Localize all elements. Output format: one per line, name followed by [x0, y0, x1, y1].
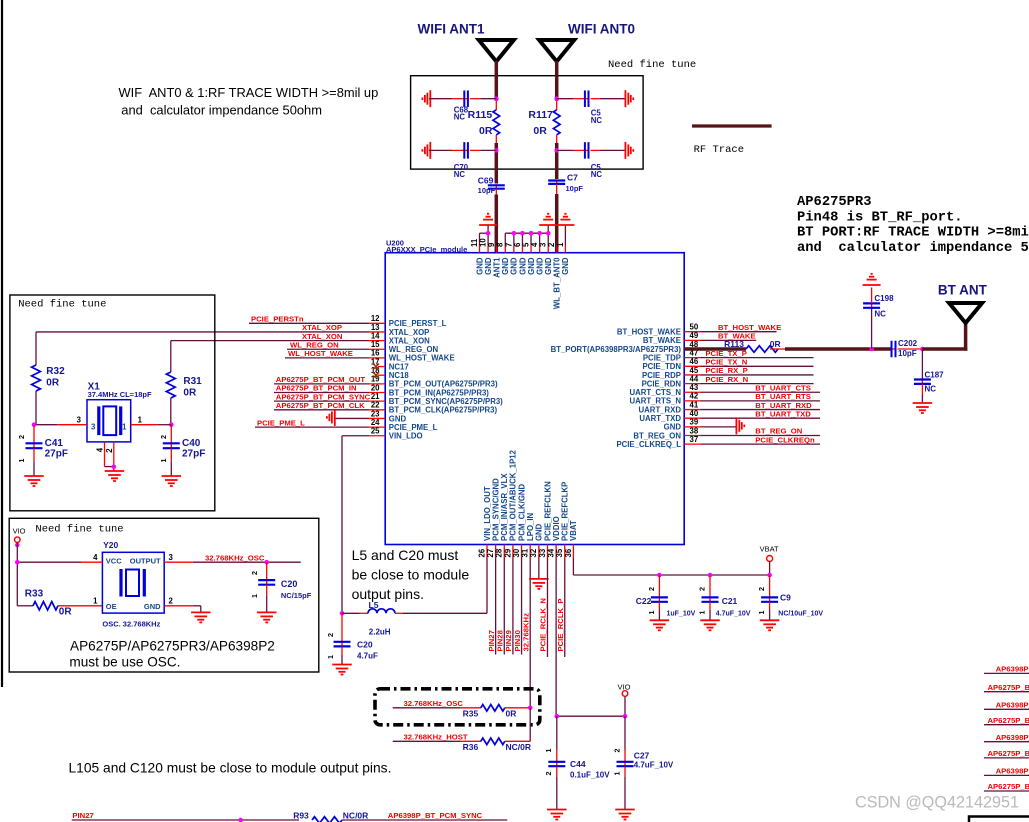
svg-text:XTAL_XON: XTAL_XON — [302, 332, 343, 341]
wire right-edge net stub 1 — [984, 672, 1029, 674]
resistor R93 — [312, 817, 342, 822]
svg-text:BT_PCM_OUT(AP6275P/PR3): BT_PCM_OUT(AP6275P/PR3) — [389, 380, 498, 389]
svg-text:0R: 0R — [533, 125, 547, 137]
capacitor C68 — [463, 90, 469, 107]
capacitor C70 — [463, 142, 469, 159]
svg-text:L5 and C20 must: L5 and C20 must — [352, 547, 459, 563]
svg-text:12: 12 — [371, 314, 380, 323]
junction ANT1/C68 — [494, 96, 499, 101]
svg-text:C202: C202 — [898, 339, 918, 348]
svg-text:AP6275P_BT_PCM: AP6275P_BT_PCM — [988, 782, 1029, 791]
wire C5b to ground — [600, 149, 626, 151]
capacitor C21 — [702, 596, 719, 602]
capacitor C44 lead bottom — [556, 766, 558, 809]
svg-text:29: 29 — [503, 548, 512, 557]
antenna BT ANT — [949, 303, 982, 323]
crystal X1 symbol — [99, 406, 121, 435]
net label AP6398P BT PCM SYNC — [388, 811, 483, 820]
svg-text:32.768KHz_OSC: 32.768KHz_OSC — [404, 699, 464, 708]
label Y20 — [103, 540, 118, 550]
resistor R33 — [33, 602, 58, 610]
label X1 — [88, 382, 101, 393]
svg-text:GND: GND — [664, 423, 682, 432]
legend RF trace text — [694, 144, 744, 156]
ground (below C9) — [760, 620, 780, 630]
capacitor C5 (upper) — [584, 90, 590, 107]
wire right-edge net stub 2 — [984, 691, 1029, 693]
wire PCIE_PERSTn (pin12) — [249, 322, 369, 324]
svg-text:10pF: 10pF — [898, 349, 917, 358]
label R113 value 0R — [770, 339, 781, 349]
pin number 2 (C44) — [544, 772, 553, 776]
svg-text:R117: R117 — [528, 109, 553, 121]
svg-text:NC18: NC18 — [389, 371, 410, 380]
label C202 — [898, 339, 918, 348]
svg-text:LPO_IN: LPO_IN — [526, 512, 535, 541]
svg-text:0R: 0R — [59, 607, 73, 618]
label R31 — [183, 376, 202, 387]
net label AP6275P_BT_PCM (right edge 8) — [988, 782, 1029, 791]
capacitor C20 lead bottom — [341, 646, 343, 664]
label C187 value NC — [925, 385, 937, 394]
svg-text:22: 22 — [371, 401, 380, 410]
pin lead C5a right — [591, 98, 600, 100]
wire C5a to ground — [600, 98, 626, 100]
power VBAT symbol — [767, 556, 773, 562]
label R115 — [468, 109, 493, 121]
wire VBAT drop — [769, 562, 771, 576]
net label AP6275P BT PCM IN — [276, 384, 357, 393]
capacitor C27 — [617, 761, 634, 767]
svg-text:WL_REG_ON: WL_REG_ON — [389, 345, 439, 354]
svg-text:42: 42 — [690, 392, 699, 401]
svg-text:AP6275P_BT_PCM_IN: AP6275P_BT_PCM_IN — [276, 384, 357, 393]
capacitor C5 (lower) — [584, 142, 590, 159]
svg-text:2.2uH: 2.2uH — [369, 628, 391, 637]
svg-text:2: 2 — [326, 633, 335, 637]
junction pin6 bus — [520, 231, 525, 236]
svg-text:WL_HOST_WAKE: WL_HOST_WAKE — [389, 354, 455, 363]
svg-text:BT ANT: BT ANT — [938, 283, 988, 298]
wire C187 to ground — [921, 395, 923, 403]
svg-text:NC: NC — [874, 310, 886, 319]
RF trace BT (R113 to C202) — [785, 347, 892, 351]
svg-text:C27: C27 — [634, 751, 650, 761]
module left pin leads 12-25 — [369, 323, 385, 435]
svg-text:2: 2 — [105, 448, 114, 453]
wire XTAL_XON drop to R31 — [170, 341, 172, 372]
wire pin27 down — [495, 558, 497, 655]
label R31 value 0R — [183, 388, 197, 399]
svg-text:38: 38 — [690, 426, 699, 435]
wire PIN27 net (R93 row) — [72, 819, 299, 821]
svg-text:0R: 0R — [46, 378, 60, 389]
wire pin6 stub up — [521, 233, 523, 245]
RF trace ANT1 (antenna to R115) — [495, 61, 499, 101]
label R93 — [293, 811, 309, 821]
svg-text:1: 1 — [556, 242, 565, 247]
svg-text:32.768KHz_HOST: 32.768KHz_HOST — [404, 733, 468, 742]
wire BT_PCM_CLK (pin22) — [274, 409, 369, 411]
svg-text:PCIE_TX_N: PCIE_TX_N — [705, 358, 747, 367]
frame left border — [1, 0, 3, 687]
svg-text:PIN29: PIN29 — [504, 630, 513, 651]
svg-text:R93: R93 — [293, 811, 309, 821]
net label AP6275P BT PCM SYNC — [276, 392, 371, 401]
RF trace BT (C202 to antenna) — [922, 321, 967, 351]
svg-text:AP6275P_BT_PCM: AP6275P_BT_PCM — [988, 716, 1029, 725]
net label WL HOST WAKE — [288, 349, 353, 358]
wire right-edge net stub 7 — [984, 774, 1029, 776]
pin number 1 (C41) — [17, 459, 26, 463]
svg-text:0R: 0R — [479, 125, 493, 137]
module bottom pin numbers — [477, 548, 572, 557]
pin lead L5 right — [395, 612, 403, 614]
wire R33 row — [17, 605, 33, 607]
ground (below C44) — [547, 810, 567, 820]
svg-text:C20: C20 — [357, 640, 373, 650]
wire VIN_LDO (pin25) — [342, 436, 369, 614]
junction node A (X1 pin3) — [32, 422, 37, 427]
pin lead C68 left — [452, 98, 464, 100]
module bottom pin names — [483, 449, 578, 541]
label R33 value 0R — [59, 607, 73, 618]
junction pin7 bus — [512, 231, 517, 236]
wire VIO rail — [557, 715, 625, 717]
svg-text:13: 13 — [371, 323, 380, 332]
label R93 value NC/0R — [343, 811, 369, 821]
pin number 4 (Y20) — [93, 553, 98, 562]
pin number 2 (C40) — [159, 435, 168, 439]
ground (below C187) — [913, 403, 933, 413]
net label PCIE RCLK N (rotated) — [539, 598, 548, 652]
svg-text:PCIE_RCLK_P: PCIE_RCLK_P — [556, 599, 565, 652]
wire pin36 to VBAT rail — [573, 558, 769, 576]
wire pin3 to ground — [547, 225, 549, 246]
svg-text:ANT1: ANT1 — [492, 257, 501, 278]
ground (Y20 GND) — [191, 612, 211, 622]
svg-text:36: 36 — [564, 548, 573, 557]
svg-text:Y20: Y20 — [103, 540, 118, 550]
svg-text:3: 3 — [539, 242, 548, 247]
svg-text:PCIE_REFCLKN: PCIE_REFCLKN — [543, 481, 552, 541]
wire right-edge net stub 8 — [984, 790, 1029, 792]
pin lead Y20 pin2 — [164, 605, 193, 607]
wire pin5 stub up — [530, 233, 532, 245]
wire X1 pins 4/2 join — [105, 467, 114, 471]
label C20 — [357, 640, 373, 650]
svg-text:GND: GND — [527, 257, 536, 275]
module top pin leads 1-11 — [480, 246, 566, 253]
svg-text:PCM_IN/ASR_VLX: PCM_IN/ASR_VLX — [500, 473, 509, 541]
label C69 value 10pF — [478, 186, 496, 195]
svg-text:2: 2 — [17, 435, 26, 439]
svg-text:R33: R33 — [25, 589, 44, 600]
ground (above pin10) — [479, 214, 497, 225]
svg-text:AP6398P_BT_PCM: AP6398P_BT_PCM — [996, 701, 1029, 710]
capacitor C187 — [914, 379, 931, 385]
need-fine-tune box 1 — [10, 295, 215, 511]
svg-text:GND: GND — [535, 257, 544, 275]
wire PCIE_RX_P (pin45) — [701, 374, 814, 376]
pin number 1 (C22) — [647, 611, 656, 615]
net label BT_UART_RTS — [755, 392, 811, 401]
svg-text:VIN_LDO: VIN_LDO — [389, 432, 423, 441]
svg-text:3: 3 — [91, 422, 96, 431]
svg-text:2: 2 — [547, 242, 556, 247]
module U200 outline — [385, 253, 684, 545]
crystal X1 pin1 lead — [131, 424, 172, 426]
pin name GND (Y20) — [144, 602, 161, 611]
power VIO symbol — [622, 691, 628, 697]
capacitor C22 lead bottom — [658, 602, 660, 621]
label C69 — [478, 176, 494, 186]
crystal X1 pin4 lead — [104, 442, 106, 467]
pin lead C70 right — [470, 149, 496, 151]
net label PCIE_TX_P — [705, 349, 746, 358]
wire BT_UART_CTS (pin43) — [701, 391, 821, 393]
svg-text:C7: C7 — [567, 173, 578, 183]
svg-text:AP6398P_BT_PCM: AP6398P_BT_PCM — [996, 733, 1029, 742]
label C68 — [454, 105, 469, 121]
svg-text:WIFI ANT0: WIFI ANT0 — [568, 22, 635, 37]
svg-text:C20: C20 — [281, 579, 298, 589]
svg-text:AP6275P_BT_PCM_CLK: AP6275P_BT_PCM_CLK — [276, 401, 365, 410]
label C21 value — [716, 611, 751, 618]
pin lead Y20 pin3 — [164, 561, 193, 563]
svg-text:AP6275P_BT_PCM_SYNC: AP6275P_BT_PCM_SYNC — [276, 392, 371, 401]
svg-text:PCIE_CLKREQ_L: PCIE_CLKREQ_L — [616, 440, 681, 449]
pin number 2 (C20) — [326, 633, 335, 637]
svg-text:35: 35 — [555, 548, 564, 557]
RF trace ANT0 (R117 to C7) — [555, 143, 559, 179]
net label AP6398P_BT_PCM (right edge 7) — [996, 767, 1029, 776]
svg-text:31: 31 — [521, 548, 530, 557]
wire BT_UART_RXD (pin41) — [701, 409, 821, 411]
pin lead R33 to Y20 pin1 — [58, 605, 102, 607]
label WIFI ANT1 — [418, 22, 485, 37]
svg-text:24: 24 — [371, 418, 380, 427]
pin lead L5 left — [360, 612, 369, 614]
svg-text:AP6398P_BT_PCM: AP6398P_BT_PCM — [996, 767, 1029, 776]
oscillator Y20 crystal symbol — [121, 569, 144, 597]
svg-text:BT PORT:RF TRACE WIDTH >=8mil: BT PORT:RF TRACE WIDTH >=8mil — [797, 225, 1029, 241]
ground (below C40) — [162, 476, 182, 486]
wire BT_REG_ON (pin38) — [701, 435, 821, 437]
svg-text:AP6275P/AP6275PR3/AP6398P2: AP6275P/AP6275PR3/AP6398P2 — [70, 639, 275, 654]
pin number 1 (C20 osc) — [250, 594, 259, 598]
resistor R35 — [481, 705, 505, 712]
svg-text:AP6275P_BT_PCM: AP6275P_BT_PCM — [988, 683, 1029, 692]
no-connect X pin18 — [373, 372, 379, 378]
svg-text:PCIE_RX_N: PCIE_RX_N — [705, 375, 748, 384]
svg-text:GND: GND — [144, 602, 161, 611]
label C198 — [874, 294, 894, 303]
svg-text:33: 33 — [538, 548, 547, 557]
svg-text:39: 39 — [690, 418, 699, 427]
svg-text:AP6398P_BT_PCM: AP6398P_BT_PCM — [996, 665, 1029, 674]
pin number 1 (C40) — [159, 459, 168, 463]
junction pin5 bus — [529, 231, 534, 236]
svg-text:2: 2 — [698, 587, 707, 591]
svg-text:NC/10uF_10V: NC/10uF_10V — [778, 611, 823, 618]
resistor R36 — [481, 738, 505, 745]
svg-text:4: 4 — [96, 447, 105, 452]
resistor R115 — [493, 110, 500, 135]
capacitor C7 — [548, 180, 565, 185]
ground (below X1) — [105, 471, 125, 481]
capacitor C202 — [891, 341, 897, 358]
svg-text:10pF: 10pF — [478, 186, 496, 195]
svg-text:PCIE_PME_L: PCIE_PME_L — [257, 418, 305, 427]
label R36 — [463, 742, 479, 752]
pin lead R36 right — [505, 740, 530, 742]
svg-text:NC/0R: NC/0R — [343, 811, 369, 821]
net label PCIE CLKREQn — [755, 435, 815, 444]
power VIO (box2) symbol — [14, 537, 20, 543]
svg-text:NC: NC — [591, 170, 603, 179]
svg-text:1: 1 — [612, 772, 621, 776]
label C40 — [182, 438, 201, 449]
note OSC requirement — [69, 639, 274, 670]
svg-text:WIFI ANT1: WIFI ANT1 — [418, 22, 485, 37]
svg-text:37.4MHz CL=18pF: 37.4MHz CL=18pF — [88, 390, 152, 399]
wire PCIE_PME_L (pin24) — [255, 426, 369, 428]
svg-text:PCIE_PERSTn: PCIE_PERSTn — [251, 315, 304, 324]
svg-text:GND: GND — [475, 257, 484, 275]
svg-text:BT_HOST_WAKE: BT_HOST_WAKE — [617, 328, 681, 337]
svg-text:6: 6 — [513, 242, 522, 247]
svg-text:be close to module: be close to module — [352, 567, 470, 583]
svg-text:R36: R36 — [463, 742, 479, 752]
svg-text:BT_PORT(AP6398PR3/AP6275PR3): BT_PORT(AP6398PR3/AP6275PR3) — [551, 345, 682, 354]
svg-text:GND: GND — [484, 257, 493, 275]
svg-text:21: 21 — [371, 392, 380, 401]
svg-text:C44: C44 — [570, 759, 586, 769]
svg-text:BT_UART_RTS: BT_UART_RTS — [755, 392, 811, 401]
module right pin names — [551, 328, 682, 449]
svg-text:C187: C187 — [925, 370, 945, 379]
RF trace ANT0 (C7 to module pin 2) — [555, 194, 559, 253]
net label WL REG ON — [290, 340, 339, 349]
ground (left of C68) — [422, 90, 430, 107]
svg-text:L5: L5 — [369, 600, 379, 610]
net label PIN29 (rotated) — [504, 630, 513, 651]
svg-text:BT_REG_ON: BT_REG_ON — [755, 427, 802, 436]
capacitor C198 — [863, 302, 880, 308]
svg-text:0.1uF_10V: 0.1uF_10V — [570, 771, 610, 780]
pin number 1 (C21) — [698, 611, 707, 615]
label R32 value 0R — [46, 378, 60, 389]
label C41 value 27pF — [45, 449, 68, 460]
capacitor C20 lead top — [341, 614, 343, 642]
ground (below C20 osc) — [257, 612, 277, 622]
svg-text:44: 44 — [690, 374, 699, 383]
svg-text:PIN28: PIN28 — [495, 629, 504, 651]
svg-text:WIF ANT0 & 1:RF TRACE WIDTH >: WIF ANT0 & 1:RF TRACE WIDTH >=8mil up — [119, 85, 379, 100]
wire PCIE_RX_N (pin44) — [701, 383, 814, 385]
wire gnd bus pins 8-3 — [505, 233, 548, 245]
wire R36 left — [393, 740, 481, 742]
svg-text:34: 34 — [547, 548, 556, 557]
RF trace BT (module to R113) — [684, 347, 746, 351]
svg-text:NC: NC — [454, 170, 466, 179]
junction pin4 bus — [537, 231, 542, 236]
svg-text:PCIE_RDN: PCIE_RDN — [642, 379, 682, 388]
svg-text:output pins.: output pins. — [352, 586, 424, 602]
svg-text:OSC. 32.768KHz: OSC. 32.768KHz — [102, 620, 160, 629]
pin number 1 (C27) — [612, 772, 621, 776]
svg-text:AP6275P_BT_PCM_OUT: AP6275P_BT_PCM_OUT — [276, 375, 366, 384]
svg-text:2: 2 — [250, 571, 259, 575]
capacitor C40 lead bottom — [170, 448, 172, 476]
net label AP6275P_BT_PCM (right edge 6) — [988, 749, 1029, 758]
label U200 — [386, 238, 404, 247]
wire BT_HOST_WAKE (pin50) — [701, 331, 777, 333]
svg-text:3: 3 — [169, 553, 174, 562]
resistor R32 — [32, 365, 41, 391]
label R33 — [25, 589, 44, 600]
svg-text:GND: GND — [501, 257, 510, 275]
junction ANT0/C5b — [554, 148, 559, 153]
pin lead R117 top — [556, 101, 558, 110]
label C5 lower — [591, 163, 603, 179]
label C9 — [780, 593, 791, 603]
capacitor C22 lead top — [658, 575, 660, 597]
wire pin4 stub up — [539, 233, 541, 245]
svg-text:37: 37 — [690, 435, 699, 444]
note need fine tune (top) — [608, 59, 696, 71]
svg-text:3: 3 — [77, 416, 82, 425]
svg-text:NC: NC — [591, 116, 603, 125]
svg-text:and calculator impendance 50: and calculator impendance 50 — [797, 240, 1029, 256]
label L5 value 2.2uH — [369, 628, 391, 637]
pin number 2 (X1) — [105, 448, 114, 453]
svg-text:WL_REG_ON: WL_REG_ON — [290, 340, 339, 349]
inductor L5 — [368, 609, 395, 613]
junction C21 tap — [708, 573, 713, 578]
svg-text:C40: C40 — [182, 438, 201, 449]
junction below VIO — [15, 543, 20, 548]
svg-text:OE: OE — [106, 602, 117, 611]
filter box outline — [411, 76, 643, 169]
ground (right of C5 lower) — [625, 142, 633, 159]
frame title block corner — [969, 817, 1029, 822]
capacitor C9 lead bottom — [769, 602, 771, 621]
ground (pin32) — [529, 579, 549, 589]
svg-text:45: 45 — [690, 366, 699, 375]
pin lead C5b right — [591, 149, 600, 151]
svg-text:UART_RXD: UART_RXD — [639, 405, 682, 414]
net label AP6275P BT PCM CLK — [276, 401, 365, 410]
pin number 1 (Y20) — [93, 597, 98, 606]
label C40 value 27pF — [182, 449, 205, 460]
svg-text:PCIE_PME_L: PCIE_PME_L — [389, 423, 438, 432]
pin lead C70 left — [452, 149, 464, 151]
label R117 value 0R — [533, 125, 547, 137]
svg-text:2: 2 — [757, 587, 766, 591]
pin lead R115 top — [495, 101, 497, 110]
pin lead Y20 pin4 — [81, 561, 102, 563]
wire pin32 to ground — [538, 558, 540, 579]
label C44 value 0.1uF_10V — [570, 771, 610, 780]
net label XTAL XOP — [302, 323, 342, 332]
capacitor C40 — [163, 442, 180, 449]
svg-text:16: 16 — [371, 349, 380, 358]
junction C187 tap — [920, 347, 925, 352]
wire BT_WAKE (pin49) — [701, 339, 757, 341]
svg-text:NC: NC — [925, 385, 937, 394]
